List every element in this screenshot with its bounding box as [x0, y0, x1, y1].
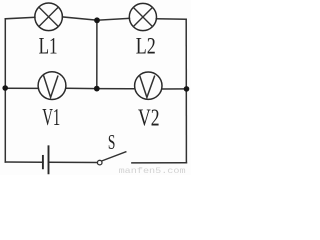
- svg-text:manfen5.com: manfen5.com: [119, 166, 186, 175]
- svg-text:S: S: [108, 130, 116, 154]
- svg-text:L1: L1: [39, 34, 58, 60]
- svg-text:L2: L2: [136, 34, 156, 60]
- svg-text:V2: V2: [138, 105, 160, 131]
- svg-text:V1: V1: [42, 105, 60, 131]
